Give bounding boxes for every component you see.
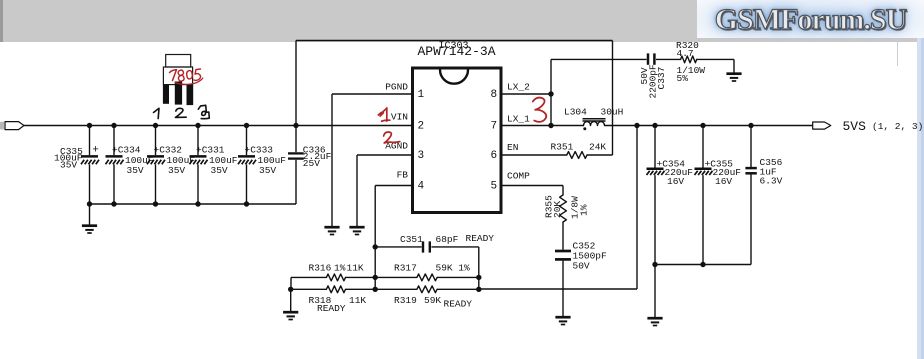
regulator 7805 leg 1 <box>163 85 169 104</box>
svg-text:35V: 35V <box>259 165 276 176</box>
wire: AGND pin 3 to ground <box>357 154 413 156</box>
inductor L304 <box>584 122 605 126</box>
capacitor C331 wires <box>197 126 199 156</box>
svg-text:R319: R319 <box>394 295 417 306</box>
svg-text:4: 4 <box>418 180 425 192</box>
svg-text:20K: 20K <box>552 201 563 218</box>
svg-text:R316: R316 <box>309 263 332 274</box>
capacitor C331 plates <box>190 155 207 158</box>
junction dots on ground bus <box>87 201 92 206</box>
svg-text:35V: 35V <box>211 165 228 176</box>
capacitor C354 wires <box>654 126 656 168</box>
regulator 7805 leg 2 <box>175 82 182 105</box>
wire: snubber line left <box>551 58 647 60</box>
wire: row2 right <box>375 288 417 290</box>
red annotation 3 at LX <box>533 98 547 122</box>
svg-text:4.7: 4.7 <box>677 48 694 59</box>
wire: FB pin 4 down to divider <box>375 185 412 187</box>
regulator 7805 tab outline <box>166 55 191 68</box>
faint border line under logo <box>897 38 899 66</box>
svg-text:VIN: VIN <box>391 112 408 123</box>
ground symbol PGND <box>324 226 339 229</box>
svg-text:5: 5 <box>491 180 498 192</box>
dark left edge of header band <box>0 0 3 42</box>
svg-text:35V: 35V <box>168 165 185 176</box>
resistor R355 <box>560 195 567 222</box>
handwritten pin number 2 <box>175 108 186 117</box>
capacitor C332 plates <box>147 155 164 158</box>
resistor R318 <box>326 286 345 293</box>
wire: LX_2 pin 8 <box>501 93 551 95</box>
svg-text:+C333: +C333 <box>245 144 274 155</box>
red annotation 2 at AGND <box>384 132 400 143</box>
svg-text:30uH: 30uH <box>601 106 624 117</box>
wire: row1 right end <box>437 276 479 278</box>
svg-text:5VS: 5VS <box>843 119 867 134</box>
svg-text:L304: L304 <box>564 106 587 117</box>
wire: bus ground stem <box>89 204 91 225</box>
svg-text:1%: 1% <box>579 204 590 216</box>
capacitor C335 wires <box>89 126 91 156</box>
svg-text:68pF: 68pF <box>436 234 459 245</box>
svg-text:LX_1: LX_1 <box>507 113 530 124</box>
capacitor C334 plates <box>106 155 123 158</box>
wire: LX_1 pin 7 <box>501 125 551 127</box>
svg-text:7: 7 <box>491 120 498 132</box>
wire: row2 right end <box>437 288 479 290</box>
wire: snubber line middle <box>656 58 681 60</box>
red annotation 1 at VIN <box>378 108 390 121</box>
capacitor C336 wires <box>295 126 297 153</box>
ground symbol below capacitor bank <box>82 224 97 227</box>
capacitor C333 wires <box>246 126 248 156</box>
capacitor C332 wires <box>155 126 157 156</box>
gray header band <box>0 0 924 42</box>
capacitor C351 plates <box>422 241 424 252</box>
wire: row2 left <box>346 288 376 290</box>
svg-text:16V: 16V <box>715 176 732 187</box>
wire: feedback sense line <box>636 126 638 290</box>
wire: VIN rail riser to top wire <box>295 41 297 126</box>
svg-text:READY: READY <box>317 303 346 314</box>
wire: top VIN wire <box>296 40 613 42</box>
capacitor C356 wires <box>750 126 752 168</box>
svg-text:8: 8 <box>491 89 498 101</box>
svg-text:PGND: PGND <box>385 82 408 93</box>
svg-text:50V: 50V <box>573 260 590 271</box>
capacitor C355 wires <box>702 126 704 168</box>
wire: output bus ground stem <box>654 265 656 318</box>
svg-text:+C332: +C332 <box>154 144 183 155</box>
svg-text:R351: R351 <box>551 142 574 153</box>
svg-text:6.3V: 6.3V <box>760 175 783 186</box>
wire: divider ground stem <box>290 289 292 311</box>
junction dot LX_1 <box>548 123 553 128</box>
svg-text:+C334: +C334 <box>112 144 141 155</box>
handwritten pin number 3 <box>198 105 209 118</box>
svg-text:59K: 59K <box>424 295 441 306</box>
svg-text:11K: 11K <box>349 295 366 306</box>
ground symbol snubber <box>726 72 741 75</box>
junction dots on output rail <box>634 123 639 128</box>
svg-text:11K: 11K <box>347 263 364 274</box>
wire: FB row1 right <box>375 276 417 278</box>
junction dot LX_2 <box>548 91 553 96</box>
capacitor C335 plates <box>81 155 98 158</box>
wire: FB row1 left <box>346 276 376 278</box>
svg-text:+C331: +C331 <box>196 144 225 155</box>
capacitor C355 plates <box>695 168 712 171</box>
wire: row2 left end <box>291 288 327 290</box>
svg-text:6: 6 <box>491 150 498 162</box>
svg-text:C351: C351 <box>400 234 423 245</box>
svg-text:2: 2 <box>418 120 425 132</box>
svg-text:25V: 25V <box>303 158 320 169</box>
GSMForum.SU watermark logo <box>697 0 924 38</box>
svg-text:C337: C337 <box>656 67 667 90</box>
svg-text:1%: 1% <box>334 263 346 274</box>
svg-text:24K: 24K <box>589 142 606 153</box>
wire: R355 to C352 <box>562 222 564 250</box>
op-amp/regulator IC303 body <box>413 68 502 213</box>
capacitor C351 wires <box>375 246 421 248</box>
svg-text:READY: READY <box>466 233 495 244</box>
capacitor C352 plates <box>555 250 571 253</box>
wire: snubber line right + drop <box>697 58 734 60</box>
svg-text:59K 1%: 59K 1% <box>436 263 471 274</box>
svg-text:16V: 16V <box>667 176 684 187</box>
left edge stub at input arrow <box>0 122 4 130</box>
capacitor C334 wires <box>113 126 115 156</box>
ground symbol divider <box>283 311 298 314</box>
wire: divider right tie <box>478 277 480 289</box>
capacitor C336 plates <box>288 152 304 154</box>
svg-text:1: 1 <box>418 89 425 101</box>
wire: 5VS output rail <box>605 125 813 127</box>
wire: COMP pin 5 <box>501 185 563 187</box>
svg-text:R317: R317 <box>394 263 417 274</box>
svg-text:3: 3 <box>418 150 425 162</box>
svg-text:READY: READY <box>444 299 473 310</box>
ground symbol C352 <box>555 316 570 319</box>
resistor R319 <box>417 286 437 293</box>
svg-text:FB: FB <box>397 169 409 180</box>
IC303 notch <box>440 70 468 84</box>
capacitor C337 plates <box>647 53 650 64</box>
junction dots divider <box>373 275 378 280</box>
input net connector arrow <box>5 122 24 130</box>
capacitor C333 plates <box>238 155 255 158</box>
svg-text:(1, 2, 3): (1, 2, 3) <box>872 121 923 132</box>
output net connector arrow 5VS <box>813 122 831 129</box>
regulator 7805 body outline <box>163 67 192 85</box>
wire: output cap ground bus <box>655 264 751 266</box>
svg-text:COMP: COMP <box>507 170 530 181</box>
capacitor C356 plates <box>745 167 756 170</box>
wire: capacitor bank ground bus <box>90 203 297 205</box>
ground symbol output bus <box>647 317 662 320</box>
wire: LX junction riser <box>550 59 552 125</box>
capacitor C354 plates <box>647 168 664 171</box>
svg-text:LX_2: LX_2 <box>507 82 530 93</box>
resistor R317 <box>417 274 437 281</box>
regulator 7805 leg 3 <box>187 85 194 106</box>
wire: PGND pin 1 to ground <box>332 93 413 95</box>
red handwritten 7805 label <box>170 70 177 81</box>
ground symbol AGND <box>349 226 364 229</box>
svg-text:+: + <box>92 144 99 156</box>
svg-text:35V: 35V <box>127 165 144 176</box>
wire: row1 left corner <box>291 276 326 278</box>
handwritten pin number 1 <box>154 108 160 118</box>
junction dots on VIN rail <box>87 123 92 128</box>
svg-text:5%: 5% <box>677 73 689 84</box>
junction dots on output cap bus <box>652 262 657 267</box>
wire: VIN input rail <box>24 125 413 127</box>
wire: C352 to ground <box>562 261 564 316</box>
resistor R320 <box>681 56 697 63</box>
wire: R351 to VIN drop <box>587 154 613 156</box>
svg-text:APW7142-3A: APW7142-3A <box>418 44 496 59</box>
resistor R351 <box>567 152 587 159</box>
wire: top wire drop to R351/EN <box>612 41 614 156</box>
light blue right edge strip <box>917 0 924 359</box>
resistor R316 <box>326 274 345 281</box>
svg-text:35V: 35V <box>60 159 77 170</box>
svg-text:EN: EN <box>507 142 518 153</box>
wire: LX_1 to inductor <box>551 125 584 127</box>
wire: EN pin 6 to R351 <box>501 154 567 156</box>
